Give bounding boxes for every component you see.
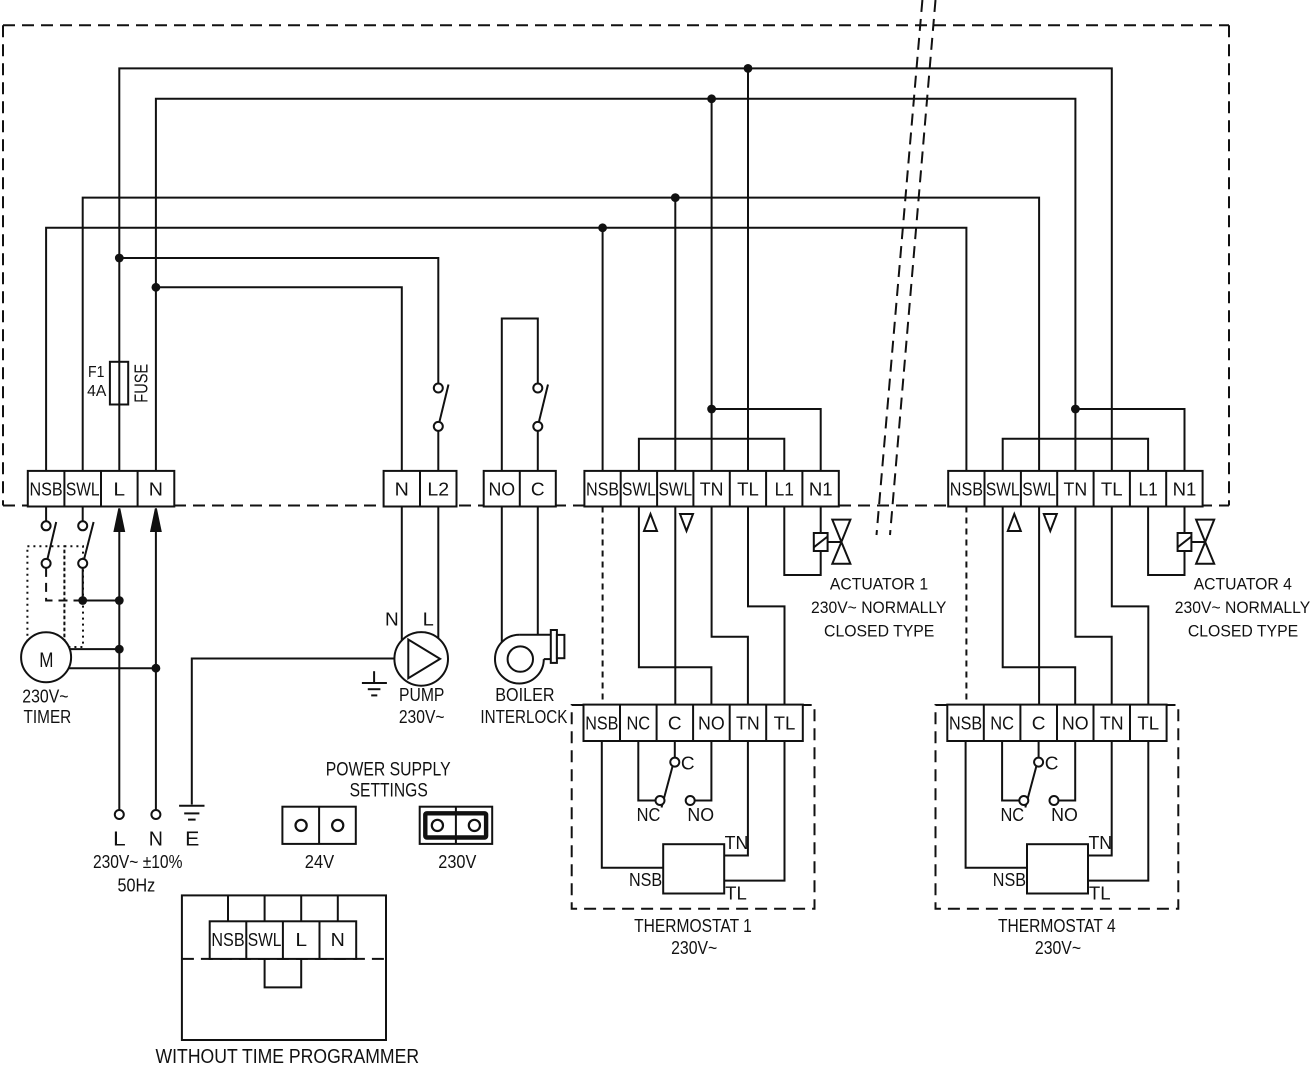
- NSB switch upper contact: [45, 507, 47, 522]
- junction on bus L at TL1: [744, 64, 753, 73]
- wire TL to body: [724, 741, 784, 881]
- divider: [319, 921, 321, 959]
- svg-text:NSB: NSB: [29, 480, 62, 500]
- wire NO link: [695, 741, 712, 801]
- divider: [419, 471, 421, 507]
- thermostat switch blade: [1025, 767, 1036, 808]
- terminal block mains NSB/SWL/L/N: [28, 471, 175, 507]
- wire TL1 drop: [747, 68, 749, 471]
- wire bus N (N to TN terminals): [156, 99, 1076, 471]
- thermostat 4 terminal strip: [947, 705, 1166, 741]
- enclosure dashed border frame: [3, 25, 1229, 505]
- svg-text:THERMOSTAT 1: THERMOSTAT 1: [634, 916, 752, 936]
- jumper cap 230V: [425, 813, 486, 837]
- svg-text:N: N: [149, 480, 163, 500]
- wire N1 to actuator: [820, 507, 822, 534]
- earth symbol at pump: [362, 671, 387, 695]
- wire N to pump: [401, 507, 403, 641]
- svg-text:L: L: [423, 610, 434, 630]
- terminal block zone 4: [948, 471, 1202, 507]
- svg-text:TN: TN: [1100, 714, 1124, 734]
- terminal block N/L2: [384, 471, 457, 507]
- actuator valve link: [828, 541, 842, 543]
- boiler blower casing: [495, 635, 544, 684]
- wire C pole: [674, 741, 676, 758]
- thermostat body box: [663, 844, 724, 893]
- divider: [983, 705, 985, 741]
- actuator valve body: [1196, 520, 1214, 542]
- NSB switch blade: [47, 522, 56, 561]
- svg-text:BOILER: BOILER: [495, 685, 554, 705]
- svg-text:4A: 4A: [87, 383, 107, 400]
- arrow up on N: [151, 509, 160, 532]
- symbol triangle up: [644, 514, 657, 531]
- wire SWL2-1 drop: [674, 198, 676, 471]
- svg-text:ACTUATOR 4: ACTUATOR 4: [1194, 574, 1292, 593]
- wire SWL1 to thermostat NO: [639, 507, 712, 705]
- terminal block NO/C: [484, 471, 556, 507]
- wire N branch to pump N terminal: [156, 287, 402, 471]
- wire L branch to L2 switch: [119, 258, 438, 384]
- wire TL to body: [1088, 741, 1148, 881]
- svg-text:NO: NO: [488, 480, 515, 500]
- divider: [692, 471, 694, 507]
- svg-text:CLOSED TYPE: CLOSED TYPE: [1188, 621, 1298, 640]
- svg-text:L1: L1: [775, 480, 794, 500]
- divider: [519, 471, 521, 507]
- junction L branch: [115, 254, 124, 263]
- svg-text:NC: NC: [626, 714, 650, 734]
- wire TL to thermostat TL: [1112, 507, 1149, 705]
- svg-text:TIMER: TIMER: [24, 707, 72, 727]
- wire NO link: [1059, 741, 1076, 801]
- junction N branch: [152, 283, 161, 292]
- svg-text:NC: NC: [1000, 805, 1024, 825]
- svg-text:C: C: [681, 754, 695, 774]
- svg-text:230V~: 230V~: [1035, 938, 1081, 958]
- divider: [692, 705, 694, 741]
- svg-text:230V~: 230V~: [22, 687, 68, 707]
- dashed line through box: [182, 958, 386, 960]
- jumper 24V pin 2: [332, 820, 343, 831]
- wire TN to thermostat TN: [1075, 507, 1111, 705]
- wire L2 to pump: [437, 507, 439, 639]
- wire NC link: [638, 741, 655, 801]
- svg-text:N1: N1: [1173, 480, 1197, 500]
- svg-text:N1: N1: [809, 480, 833, 500]
- pedestal notch: [265, 959, 302, 988]
- divider: [1056, 705, 1058, 741]
- svg-text:N: N: [395, 480, 409, 500]
- terminal strip NSB/SWL/L/N (programmer): [210, 921, 357, 959]
- boiler inner circle: [508, 646, 533, 671]
- wire motor to N: [69, 667, 156, 669]
- jumper 24V pin 1: [296, 820, 307, 831]
- svg-text:CLOSED TYPE: CLOSED TYPE: [824, 621, 934, 640]
- junction on bus NSB at NSB1: [598, 223, 607, 232]
- thermostat body box: [1027, 844, 1088, 893]
- svg-text:E: E: [185, 829, 199, 851]
- svg-text:TL: TL: [774, 714, 796, 734]
- wire NO-C bridge: [502, 319, 538, 471]
- wire switch to C terminal: [537, 431, 539, 471]
- wire NSB to body: [966, 741, 1027, 868]
- wire NSB to body: [602, 741, 663, 868]
- svg-text:TN: TN: [725, 833, 749, 853]
- thermostat pole contact C: [670, 758, 679, 767]
- svg-text:N: N: [149, 829, 163, 851]
- boiler flange: [551, 630, 557, 663]
- svg-text:FUSE: FUSE: [132, 364, 152, 403]
- svg-text:M: M: [39, 648, 53, 672]
- svg-text:N: N: [385, 610, 399, 630]
- wire NC link: [1002, 741, 1019, 801]
- wire L2 switch to terminal: [437, 431, 439, 471]
- thermostat NO contact: [686, 796, 695, 805]
- divider: [765, 471, 767, 507]
- svg-text:SWL: SWL: [1022, 480, 1056, 500]
- thermostat 4 dashed box: [936, 705, 1179, 909]
- divider: [282, 921, 284, 959]
- svg-text:SWL: SWL: [66, 480, 100, 500]
- svg-text:L: L: [295, 930, 307, 950]
- wire NSB1 drop: [602, 228, 604, 471]
- svg-text:NSB: NSB: [949, 714, 982, 734]
- SWL switch blade: [84, 522, 94, 561]
- svg-text:24V: 24V: [305, 852, 334, 872]
- svg-text:NSB: NSB: [211, 930, 244, 950]
- svg-text:C: C: [1032, 714, 1046, 734]
- actuator 4 solenoid: [1178, 533, 1192, 551]
- divider: [801, 471, 803, 507]
- svg-text:NSB: NSB: [629, 870, 662, 890]
- jumper block 24V: [282, 807, 355, 844]
- dotted box timer switch 2: [64, 546, 83, 647]
- svg-text:NO: NO: [1062, 714, 1089, 734]
- wire TN to thermostat TN: [712, 507, 748, 705]
- divider: [1093, 705, 1095, 741]
- divider: [729, 471, 731, 507]
- thermostat switch blade: [662, 767, 673, 808]
- svg-text:TL: TL: [725, 883, 747, 903]
- divider: [729, 705, 731, 741]
- stub wire 1: [227, 895, 229, 921]
- divider: [1020, 471, 1022, 507]
- svg-text:INTERLOCK: INTERLOCK: [480, 707, 567, 727]
- jumper block 230V: [420, 807, 493, 844]
- junction on bus SWL at SWL2-1: [671, 193, 680, 202]
- svg-text:L: L: [113, 829, 126, 851]
- stub wire 3: [300, 895, 302, 921]
- svg-text:THERMOSTAT 4: THERMOSTAT 4: [998, 916, 1116, 936]
- svg-text:TL: TL: [1101, 480, 1123, 500]
- junction on bus N at TN1: [707, 94, 716, 103]
- wire TN1 to N1 branch: [712, 409, 821, 471]
- boiler switch lower contact: [533, 422, 542, 431]
- svg-text:POWER SUPPLY: POWER SUPPLY: [326, 759, 451, 780]
- svg-text:TN: TN: [1064, 480, 1088, 500]
- svg-text:L2: L2: [427, 480, 449, 500]
- svg-text:NSB: NSB: [585, 714, 618, 734]
- thermostat pole contact C: [1034, 758, 1043, 767]
- divider: [656, 705, 658, 741]
- wire N drop: [155, 509, 157, 810]
- NSB switch dashed link: [46, 568, 78, 601]
- svg-text:L1: L1: [1138, 480, 1157, 500]
- divider: [100, 471, 102, 507]
- terminal circle N: [151, 810, 160, 819]
- svg-text:SETTINGS: SETTINGS: [350, 780, 428, 801]
- fuse F1 body: [110, 362, 128, 405]
- divider: [137, 471, 139, 507]
- svg-text:C: C: [668, 714, 682, 734]
- NSB switch lower contact: [42, 559, 51, 568]
- svg-text:F1: F1: [88, 364, 104, 381]
- svg-text:TL: TL: [1137, 714, 1159, 734]
- svg-text:TN: TN: [1088, 833, 1112, 853]
- actuator 1 solenoid: [814, 533, 828, 551]
- junction switch node: [78, 596, 87, 605]
- without-time-programmer outer box: [182, 895, 386, 1040]
- arrow up on L: [115, 509, 124, 532]
- svg-text:L: L: [113, 480, 125, 500]
- thermostat 1 dashed box: [572, 705, 815, 909]
- divider: [1019, 705, 1021, 741]
- wire motor to L: [70, 648, 120, 650]
- svg-text:230V~ NORMALLY: 230V~ NORMALLY: [811, 598, 946, 617]
- divider: [620, 471, 622, 507]
- wire SWL1 to thermostat NO: [1003, 507, 1075, 705]
- wire TN1 drop: [711, 99, 713, 471]
- wire TL to thermostat TL: [748, 507, 785, 705]
- wire SWL2 to thermostat C: [1038, 507, 1040, 705]
- svg-text:NC: NC: [637, 805, 661, 825]
- divider: [63, 471, 65, 507]
- svg-text:WITHOUT TIME PROGRAMMER: WITHOUT TIME PROGRAMMER: [156, 1046, 420, 1066]
- svg-text:SWL: SWL: [658, 480, 692, 500]
- svg-text:230V: 230V: [438, 852, 476, 872]
- wire NSB dashed drop: [602, 507, 604, 705]
- wire L drop: [118, 509, 120, 810]
- svg-text:SWL: SWL: [248, 930, 282, 950]
- terminal block zone 1 bracket SWL-L1: [639, 439, 784, 471]
- wire SWL switch to L: [82, 568, 84, 601]
- earth symbol at E terminal: [179, 806, 204, 820]
- jumper 230V pin 1: [432, 820, 443, 831]
- jumper 230V divider: [455, 807, 457, 844]
- svg-text:NO: NO: [687, 805, 714, 825]
- svg-text:NSB: NSB: [586, 480, 619, 500]
- wire TN to body: [1088, 741, 1112, 856]
- wire TN to body: [724, 741, 748, 856]
- divider: [984, 471, 986, 507]
- wire bus SWL (SWL to SWL arrow-down terminals): [83, 198, 1039, 471]
- svg-text:N: N: [331, 930, 345, 950]
- SWL switch lower contact: [78, 559, 87, 568]
- wire TN2 to N1 branch: [1075, 409, 1184, 471]
- actuator valve link: [1191, 541, 1205, 543]
- divider: [1056, 471, 1058, 507]
- boiler switch blade: [539, 385, 548, 422]
- svg-text:230V~: 230V~: [399, 707, 445, 727]
- svg-text:TN: TN: [736, 714, 760, 734]
- junction on L wire: [115, 596, 124, 605]
- stub wire 4: [337, 895, 339, 921]
- wire NO to boiler: [501, 507, 503, 643]
- divider: [1129, 705, 1131, 741]
- junction motor/N: [152, 664, 161, 673]
- wire C pole: [1038, 741, 1040, 758]
- wire C to boiler: [537, 507, 539, 635]
- svg-text:TN: TN: [700, 480, 724, 500]
- divider: [1165, 471, 1167, 507]
- wire N1 to actuator: [1184, 507, 1186, 534]
- actuator valve body: [832, 520, 850, 542]
- SWL switch upper contact: [82, 507, 84, 522]
- pump triangle: [408, 640, 440, 679]
- wire L1 to actuator: [784, 507, 820, 576]
- divider: [1093, 471, 1095, 507]
- junction TN1/N1: [707, 405, 716, 414]
- divider: [765, 705, 767, 741]
- svg-text:C: C: [531, 480, 545, 500]
- wire SWL2 to thermostat C: [674, 507, 676, 705]
- junction TN2/N1: [1071, 405, 1080, 414]
- wire L1 to actuator: [1148, 507, 1184, 576]
- stub wire 2: [264, 895, 266, 921]
- thermostat NC contact: [1019, 796, 1028, 805]
- wire bus L (L to TL terminals): [119, 68, 1112, 471]
- terminal circle L: [115, 810, 124, 819]
- wire NSB dashed drop: [965, 507, 967, 705]
- thermostat 1 terminal strip: [584, 705, 803, 741]
- divider: [656, 471, 658, 507]
- svg-text:NO: NO: [1051, 805, 1078, 825]
- L2 switch blade: [440, 385, 449, 422]
- terminal block zone 4 bracket SWL-L1: [1003, 439, 1148, 471]
- divider: [245, 921, 247, 959]
- svg-text:TL: TL: [1089, 883, 1111, 903]
- svg-text:NSB: NSB: [950, 480, 983, 500]
- divider: [1129, 471, 1131, 507]
- svg-text:50Hz: 50Hz: [118, 876, 156, 896]
- svg-text:C: C: [1045, 754, 1059, 774]
- svg-text:NSB: NSB: [993, 870, 1026, 890]
- svg-text:TL: TL: [737, 480, 759, 500]
- svg-text:SWL: SWL: [622, 480, 656, 500]
- svg-text:SWL: SWL: [986, 480, 1020, 500]
- terminal block zone 1: [584, 471, 838, 507]
- jumper 230V pin 2: [469, 820, 480, 831]
- timer motor M circle: [21, 632, 71, 682]
- dotted box timer switch 1: [27, 546, 64, 647]
- svg-text:ACTUATOR 1: ACTUATOR 1: [830, 574, 928, 593]
- svg-text:230V~: 230V~: [671, 938, 717, 958]
- L2 switch upper contact: [434, 384, 443, 393]
- svg-text:230V~ NORMALLY: 230V~ NORMALLY: [1175, 598, 1310, 617]
- boiler switch upper contact: [533, 384, 542, 393]
- L2 switch lower contact: [434, 422, 443, 431]
- thermostat NO contact: [1050, 796, 1059, 805]
- wire earth E to pump: [192, 659, 395, 805]
- svg-text:NC: NC: [990, 714, 1014, 734]
- thermostat NC contact: [656, 796, 665, 805]
- break mark diagonal dashed lines: [877, 0, 936, 535]
- divider: [619, 705, 621, 741]
- symbol triangle down: [1044, 514, 1057, 531]
- pump circle: [394, 632, 448, 686]
- symbol triangle down: [680, 514, 693, 531]
- svg-text:230V~ ±10%: 230V~ ±10%: [93, 852, 183, 872]
- svg-text:PUMP: PUMP: [399, 685, 444, 705]
- wire bus NSB (NSB to NSB terminals): [46, 228, 966, 471]
- symbol triangle up: [1008, 514, 1021, 531]
- svg-text:NO: NO: [698, 714, 725, 734]
- junction motor/L: [115, 645, 124, 654]
